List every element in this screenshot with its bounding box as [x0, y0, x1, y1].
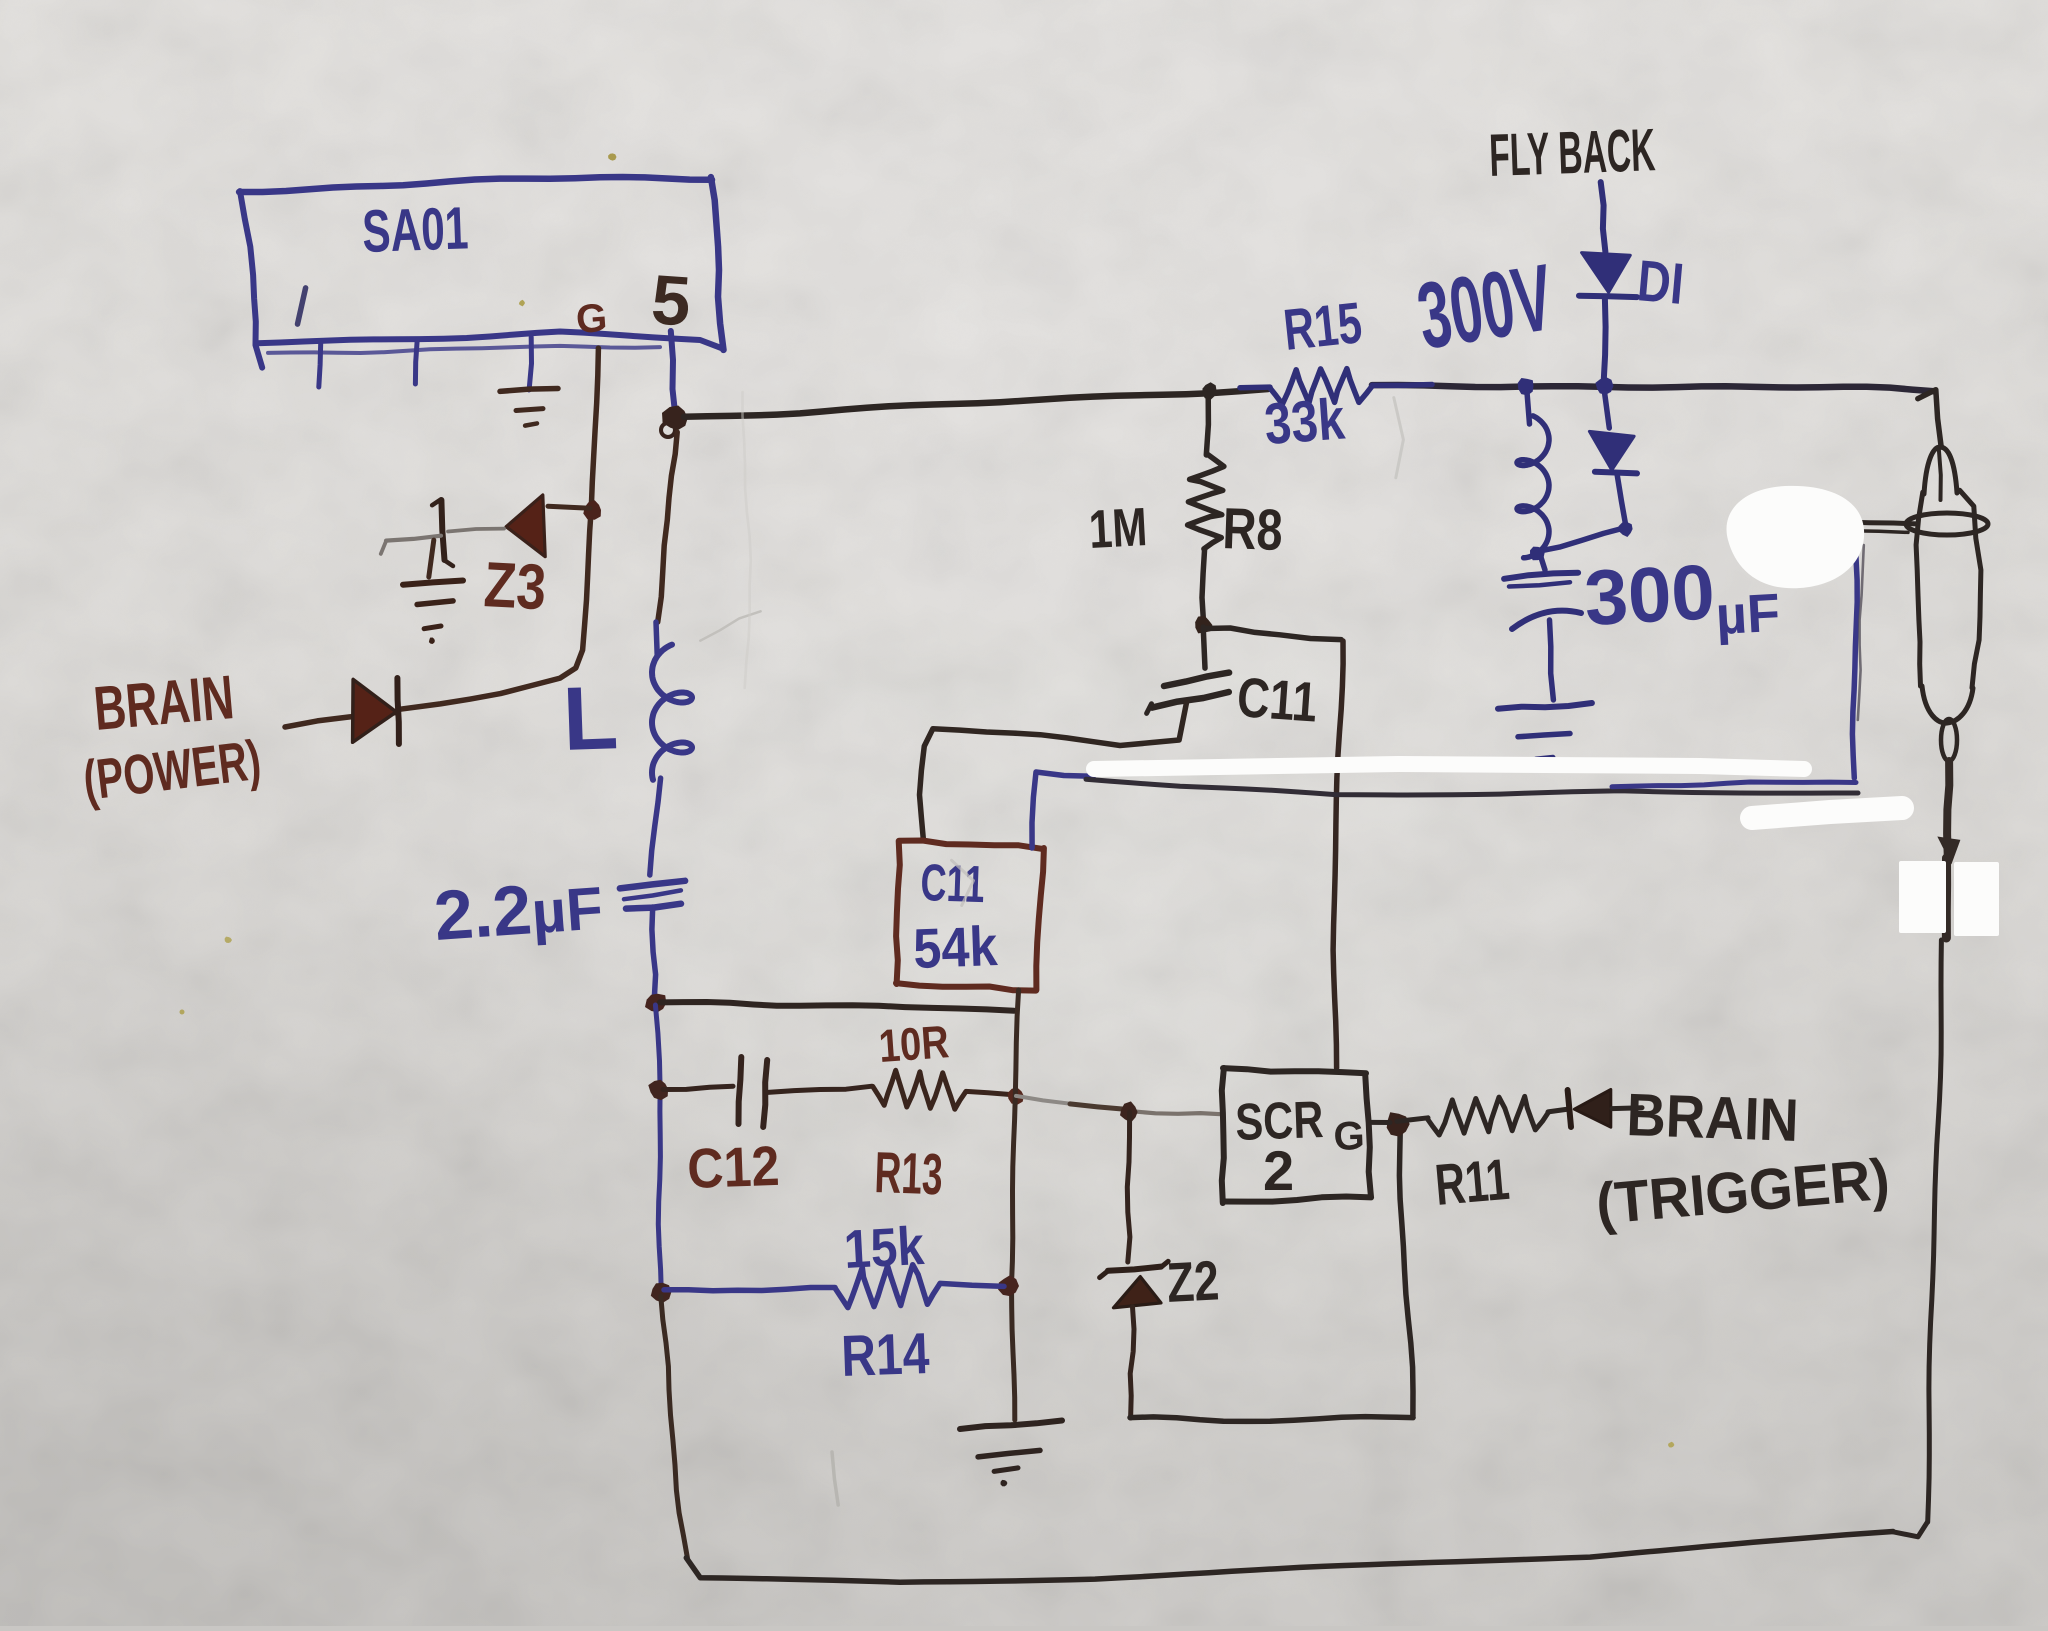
svg-text:R11: R11	[1432, 1147, 1511, 1218]
svg-text:DI: DI	[1635, 248, 1686, 317]
svg-text:C11: C11	[1235, 665, 1319, 733]
svg-text:R13: R13	[874, 1140, 944, 1207]
svg-text:BRAIN: BRAIN	[1626, 1081, 1800, 1154]
svg-text:SA01: SA01	[361, 194, 469, 265]
svg-text:2.2µF: 2.2µF	[432, 865, 606, 955]
svg-text:54k: 54k	[912, 914, 999, 980]
svg-text:R8: R8	[1222, 496, 1284, 563]
svg-text:FLY BACK: FLY BACK	[1488, 116, 1656, 189]
svg-text:G: G	[1333, 1114, 1366, 1159]
svg-text:Z3: Z3	[482, 548, 548, 623]
svg-text:2: 2	[1263, 1139, 1294, 1202]
svg-text:L: L	[561, 668, 619, 770]
svg-text:10R: 10R	[877, 1015, 950, 1072]
svg-text:R15: R15	[1281, 290, 1365, 363]
svg-text:15k: 15k	[842, 1216, 926, 1280]
svg-text:C12: C12	[686, 1134, 780, 1200]
svg-text:Z2: Z2	[1165, 1248, 1220, 1314]
svg-text:G: G	[575, 296, 609, 342]
svg-text:R14: R14	[840, 1321, 930, 1389]
svg-text:1M: 1M	[1087, 497, 1148, 560]
svg-text:33k: 33k	[1262, 387, 1347, 457]
svg-text:300V: 300V	[1411, 244, 1560, 369]
